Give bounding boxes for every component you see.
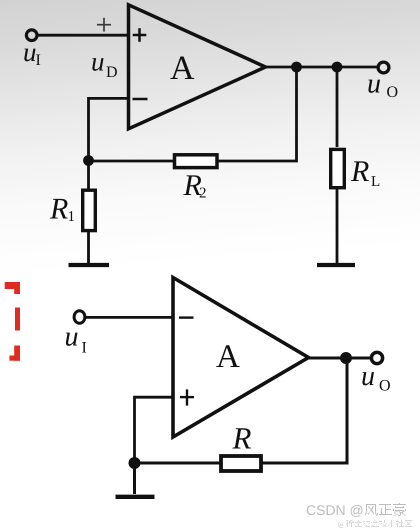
node: output junction to R2 <box>291 62 302 73</box>
svg-text:A: A <box>216 339 240 375</box>
wire: inverting input to feedback node (top circuit) <box>89 98 129 160</box>
resistor R2 <box>175 155 218 168</box>
node: junction at R1/R2 (inverting net) <box>83 155 94 166</box>
wire: junction through R to output (bottom circuit) <box>135 358 348 463</box>
svg-text:u: u <box>367 69 381 100</box>
svg-text:D: D <box>106 64 118 81</box>
svg-text:O: O <box>379 378 391 395</box>
svg-text:R: R <box>350 155 369 188</box>
watermark community <box>338 519 412 528</box>
label - (inverting pin, inside U1) <box>133 98 148 101</box>
node: output junction (bottom circuit) <box>340 352 352 364</box>
wire: junction to ground (bottom circuit) <box>133 463 136 494</box>
node: junction at ground/R (bottom circuit) <box>129 457 141 469</box>
svg-text:u: u <box>23 37 37 67</box>
resistor R1 <box>83 190 96 230</box>
svg-text:CSDN @: CSDN @ <box>306 502 364 518</box>
terminal: input u_I (top circuit) <box>26 30 37 41</box>
svg-text:I: I <box>36 52 41 69</box>
svg-text:u: u <box>91 47 105 77</box>
resistor RL <box>331 149 345 187</box>
node: output junction to RL <box>332 62 343 73</box>
wire: R1 to ground <box>87 232 90 264</box>
terminal: input u_I (bottom circuit) <box>74 311 85 324</box>
wire: feedback node to R2 to output (top circuit) <box>89 67 297 161</box>
wire: U2 output to terminal <box>308 357 372 360</box>
ground (under R1) <box>69 263 110 267</box>
svg-text:A: A <box>170 50 195 87</box>
svg-text:R: R <box>49 193 68 226</box>
svg-text:O: O <box>387 84 399 101</box>
terminal: output u_O (top circuit) <box>378 62 389 73</box>
resistor R <box>221 456 261 471</box>
op-amp U2 triangle <box>173 278 309 438</box>
svg-text:L: L <box>371 174 380 190</box>
svg-text:u: u <box>65 322 79 353</box>
wire: non-inverting input to ground node (bottom circuit) <box>135 397 174 463</box>
label + (non-inverting pin, inside U1) <box>133 28 147 42</box>
wire: U1 output to terminal <box>265 66 379 69</box>
wire: input u_I to non-inverting input (top circuit) <box>36 34 128 37</box>
ground (bottom circuit) <box>116 495 155 499</box>
terminal: output u_O (bottom circuit) <box>371 352 382 363</box>
svg-text:I: I <box>82 340 87 357</box>
ground (under RL) <box>317 263 355 267</box>
op-amp U1 triangle <box>129 5 266 129</box>
label + (non-inverting pin, inside U2) <box>180 389 194 405</box>
svg-text:R: R <box>232 421 252 456</box>
svg-text:1: 1 <box>68 209 76 225</box>
label + (polarity above input wire) <box>97 18 111 32</box>
svg-text:u: u <box>361 361 375 392</box>
wire: output node to RL <box>336 67 339 147</box>
wire: junction to R1 <box>87 160 90 189</box>
label - (inverting pin, inside U2) <box>179 316 194 318</box>
red dashed bracket (annotation) <box>5 282 20 361</box>
wire: input u_I to inverting input (bottom circuit) <box>85 316 173 319</box>
wire: RL to ground <box>336 189 339 264</box>
svg-text:2: 2 <box>199 186 207 202</box>
